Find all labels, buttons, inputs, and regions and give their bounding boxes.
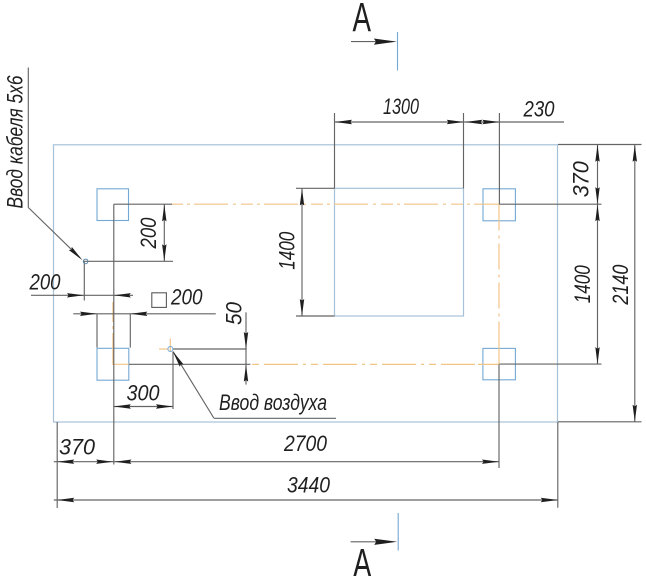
svg-text:200: 200 [136,217,161,249]
svg-text:2140: 2140 [608,264,633,305]
svg-text:А: А [353,0,372,40]
svg-text:200: 200 [29,270,61,295]
svg-text:А: А [353,540,372,576]
svg-text:300: 300 [127,381,161,406]
svg-text:200: 200 [170,285,203,310]
svg-text:50: 50 [222,301,247,325]
svg-text:230: 230 [523,97,555,122]
svg-text:1400: 1400 [275,231,300,270]
svg-text:3440: 3440 [287,473,331,498]
svg-text:370: 370 [59,435,96,460]
svg-text:1300: 1300 [383,94,420,119]
svg-text:Ввод кабеля 5х6: Ввод кабеля 5х6 [3,75,28,209]
svg-text:1400: 1400 [570,265,595,304]
svg-text:370: 370 [569,161,594,198]
svg-text:Ввод воздуха: Ввод воздуха [219,390,327,415]
svg-text:2700: 2700 [283,431,328,456]
